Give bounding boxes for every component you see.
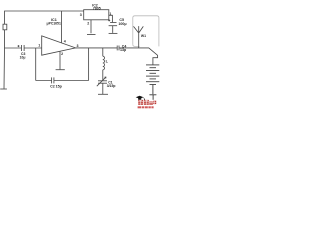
svg-text:1: 1 [38, 44, 40, 48]
svg-text:3: 3 [80, 13, 82, 17]
svg-text:10μ: 10μ [20, 56, 26, 60]
svg-text:1: 1 [109, 12, 111, 16]
svg-text:2: 2 [61, 52, 63, 56]
svg-text:μPC1651: μPC1651 [47, 22, 61, 26]
svg-text:13p: 13p [120, 48, 127, 52]
svg-text:W1: W1 [141, 34, 146, 38]
svg-text:3/15p: 3/15p [107, 84, 116, 88]
svg-text:C2 15p: C2 15p [50, 84, 63, 88]
svg-text:100μ: 100μ [118, 22, 126, 26]
svg-text:2: 2 [87, 22, 89, 26]
svg-text:4: 4 [64, 40, 66, 44]
svg-text:7805: 7805 [93, 7, 101, 11]
svg-text:3: 3 [77, 44, 79, 48]
